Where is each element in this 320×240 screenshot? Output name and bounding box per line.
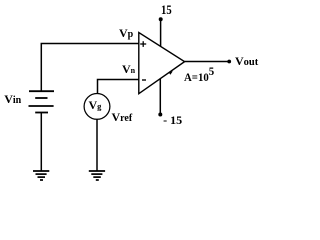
source Vg circle [84, 94, 110, 120]
battery B1 plate long top [29, 90, 54, 92]
ground right [89, 171, 105, 180]
label +15 [161, 3, 172, 18]
wire battery bottom to ground [40, 113, 42, 171]
node dot +15 [159, 17, 163, 21]
label Vref [112, 111, 133, 125]
battery B1 plate short bottom [35, 112, 48, 114]
wire Vn horizontal [98, 80, 140, 94]
wire Vp horizontal [41, 44, 139, 91]
label Vg [89, 99, 102, 113]
wire +15 supply [160, 19, 162, 46]
wire Vg bottom to ground [96, 119, 98, 171]
node dot Vout [227, 60, 231, 64]
op-amp U1 triangle [139, 33, 185, 94]
battery B1 plate long [29, 105, 54, 107]
op-amp minus input marker [142, 79, 146, 81]
node dot -15 [158, 113, 162, 117]
battery B1 plate short [35, 97, 47, 99]
label Vp [119, 27, 133, 41]
label Vout [235, 55, 258, 69]
op-amp plus input marker [140, 41, 146, 47]
label Vn [122, 63, 135, 77]
wire output [185, 61, 229, 63]
ground left [33, 171, 49, 180]
label A=10^5 gain [184, 71, 214, 85]
arrowhead on lower edge of op-amp [169, 71, 173, 75]
wire -15 supply [159, 79, 161, 115]
label Vin [4, 93, 21, 107]
label -15 [163, 114, 182, 128]
